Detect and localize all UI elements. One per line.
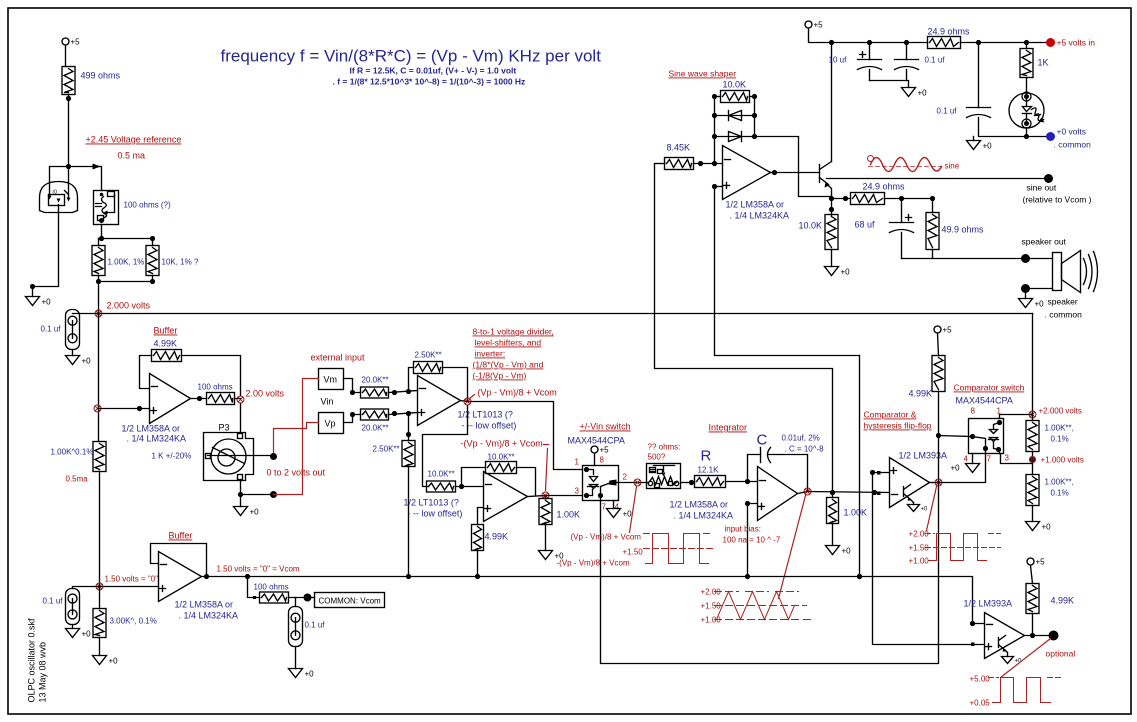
svg-text:1.00K^0.1%: 1.00K^0.1% xyxy=(51,448,94,457)
svg-text:. common: . common xyxy=(1045,310,1083,320)
svg-text:1/2 LM358A or: 1/2 LM358A or xyxy=(726,200,785,210)
svg-text:r0: r0 xyxy=(53,190,58,196)
svg-text:499 ohms: 499 ohms xyxy=(81,71,121,81)
svg-text:10 uf: 10 uf xyxy=(829,56,848,65)
svg-text:1/2 LM358A or: 1/2 LM358A or xyxy=(175,600,234,610)
svg-text:0.1 uf: 0.1 uf xyxy=(43,597,64,606)
svg-text:. 1/4 LM324KA: . 1/4 LM324KA xyxy=(674,511,734,521)
svg-text:C: C xyxy=(757,432,768,449)
svg-text:. common: . common xyxy=(1054,140,1092,150)
svg-text:10.0K: 10.0K xyxy=(799,221,823,231)
svg-text:+0: +0 xyxy=(918,89,928,98)
svg-text:100 ohms: 100 ohms xyxy=(198,383,233,392)
svg-text:24.9 ohms: 24.9 ohms xyxy=(863,182,906,192)
svg-text:COMMON: Vcom: COMMON: Vcom xyxy=(319,597,382,606)
svg-text:+0: +0 xyxy=(82,357,92,366)
svg-text:0 to 2 volts out: 0 to 2 volts out xyxy=(267,468,326,478)
svg-text:Comparator switch: Comparator switch xyxy=(954,383,1025,393)
svg-text:10K, 1% ?: 10K, 1% ? xyxy=(162,258,199,267)
svg-text:0.1 uf: 0.1 uf xyxy=(925,56,946,65)
svg-text:1.00K**,: 1.00K**, xyxy=(1045,478,1074,487)
svg-text:+2.000 volts: +2.000 volts xyxy=(1039,407,1082,416)
svg-text:0.1 uf: 0.1 uf xyxy=(305,621,326,630)
svg-text:4.99K: 4.99K xyxy=(1051,596,1075,606)
svg-text:100 ohms (?): 100 ohms (?) xyxy=(124,201,171,210)
svg-text:Comparator &: Comparator & xyxy=(864,410,917,420)
svg-text:3.00K^, 0.1%: 3.00K^, 0.1% xyxy=(110,617,157,626)
svg-text:input bias:: input bias: xyxy=(725,525,761,534)
svg-text:1.00K: 1.00K xyxy=(557,510,581,520)
svg-text:2.000 volts: 2.000 volts xyxy=(107,301,151,311)
svg-text:1/2 LM393A: 1/2 LM393A xyxy=(964,599,1013,609)
svg-text:500?: 500? xyxy=(648,453,666,462)
svg-text:1/2 LT1013 (?: 1/2 LT1013 (? xyxy=(404,498,459,508)
svg-text:. f = 1/(8* 12.5*10^3* 10^-8): . f = 1/(8* 12.5*10^3* 10^-8) = 1/(10^-3… xyxy=(333,77,526,87)
svg-text:- -- low offset): - -- low offset) xyxy=(408,509,463,519)
svg-text:13 May 08 wvb: 13 May 08 wvb xyxy=(38,642,48,703)
svg-text:1: 1 xyxy=(575,458,580,467)
svg-text:+0: +0 xyxy=(1042,523,1052,532)
svg-text:-(Vp - Vm)/8 + Vcom: -(Vp - Vm)/8 + Vcom xyxy=(557,559,630,568)
svg-text:1.00K**,: 1.00K**, xyxy=(1045,424,1074,433)
svg-text:Integrator: Integrator xyxy=(709,423,748,433)
svg-text:4.99K: 4.99K xyxy=(154,339,178,349)
svg-text:optional: optional xyxy=(1046,649,1076,659)
svg-text:MAX4544CPA: MAX4544CPA xyxy=(568,436,625,446)
svg-text:10.0K**: 10.0K** xyxy=(428,470,455,479)
svg-text:Buffer: Buffer xyxy=(169,531,193,541)
svg-text:+5: +5 xyxy=(814,21,824,30)
svg-text:+0: +0 xyxy=(623,510,633,519)
svg-text:+5: +5 xyxy=(1036,558,1046,567)
svg-text:4.99K: 4.99K xyxy=(485,532,509,542)
svg-text:100 ohms: 100 ohms xyxy=(254,583,289,592)
svg-text:8.45K: 8.45K xyxy=(667,143,691,153)
svg-text:1 K +/-20%: 1 K +/-20% xyxy=(152,452,192,461)
svg-text:3: 3 xyxy=(1005,454,1010,463)
svg-text:Sine wave shaper: Sine wave shaper xyxy=(669,69,737,79)
svg-text:0.1%: 0.1% xyxy=(1051,489,1069,498)
svg-text:2.50K**: 2.50K** xyxy=(415,351,442,360)
svg-text:2.50K**: 2.50K** xyxy=(373,445,400,454)
svg-text:+0 volts: +0 volts xyxy=(1057,127,1087,137)
svg-text:1.00K: 1.00K xyxy=(844,508,868,518)
svg-text:+1.50: +1.50 xyxy=(623,548,644,557)
svg-text:1/2 LM358A or: 1/2 LM358A or xyxy=(670,500,729,510)
svg-text:8: 8 xyxy=(600,456,605,465)
svg-text:1.50 volts = "0": 1.50 volts = "0" xyxy=(105,575,159,584)
svg-text:+0: +0 xyxy=(250,508,260,517)
svg-text:1/2 LM358A or: 1/2 LM358A or xyxy=(122,424,181,434)
svg-text:1/2 LT1013 (?: 1/2 LT1013 (? xyxy=(458,410,513,420)
svg-text:+1.000 volts: +1.000 volts xyxy=(1041,456,1084,465)
svg-text:20.0K**: 20.0K** xyxy=(362,376,389,385)
svg-text:1/2 LM393A: 1/2 LM393A xyxy=(899,451,948,461)
svg-text:7: 7 xyxy=(602,503,607,512)
svg-text:8: 8 xyxy=(971,407,976,416)
svg-text:(Vp - Vm)/8 + Vcom: (Vp - Vm)/8 + Vcom xyxy=(478,388,557,398)
svg-text:2: 2 xyxy=(623,473,628,482)
svg-text:-(Vp - Vm)/8 + Vcom: -(Vp - Vm)/8 + Vcom xyxy=(461,439,543,449)
svg-text:4: 4 xyxy=(964,455,969,464)
svg-text:0.1 uf: 0.1 uf xyxy=(41,325,62,334)
svg-text:Vm: Vm xyxy=(324,375,338,385)
svg-text:10.0K: 10.0K xyxy=(723,80,747,90)
svg-text:0.5 ma: 0.5 ma xyxy=(118,151,146,161)
svg-text:+0: +0 xyxy=(841,268,851,277)
svg-text:(1/8*(Vp - Vm) and: (1/8*(Vp - Vm) and xyxy=(473,360,544,370)
svg-text:. C = 10^-8: . C = 10^-8 xyxy=(785,445,825,454)
svg-text:+0: +0 xyxy=(983,142,993,151)
svg-text:+0: +0 xyxy=(1035,300,1045,309)
svg-text:+5: +5 xyxy=(71,38,81,47)
svg-text:+0: +0 xyxy=(82,630,92,639)
svg-text:speaker out: speaker out xyxy=(1022,237,1067,247)
svg-text:level-shifters, and: level-shifters, and xyxy=(475,338,542,348)
svg-text:+0: +0 xyxy=(921,507,929,513)
svg-text:+0: +0 xyxy=(109,657,119,666)
svg-text:+0: +0 xyxy=(42,298,52,307)
svg-text:Vp: Vp xyxy=(325,419,336,429)
svg-text:P3: P3 xyxy=(219,423,230,433)
svg-text:If R = 12.5K, C = 0.01uf, (V+: If R = 12.5K, C = 0.01uf, (V+ - V-) = 1.… xyxy=(350,66,517,76)
svg-text:12.1K: 12.1K xyxy=(698,466,720,475)
svg-text:68 uf: 68 uf xyxy=(855,220,876,230)
svg-text:+0.05: +0.05 xyxy=(970,699,991,708)
svg-text:. 1/4 LM324KA: . 1/4 LM324KA xyxy=(127,434,187,444)
svg-text:0.5ma: 0.5ma xyxy=(66,475,89,484)
svg-text:+5: +5 xyxy=(943,326,953,335)
svg-text:+/-Vin switch: +/-Vin switch xyxy=(580,422,631,432)
svg-text:100 na = 10 ^ -7: 100 na = 10 ^ -7 xyxy=(723,536,781,545)
svg-text:sine: sine xyxy=(945,162,960,171)
svg-text:3: 3 xyxy=(575,487,580,496)
svg-text:+1.00: +1.00 xyxy=(909,557,930,566)
svg-text:(Vp - Vm)/8 + Vcom: (Vp - Vm)/8 + Vcom xyxy=(571,533,642,542)
svg-text:MAX4544CPA: MAX4544CPA xyxy=(956,396,1013,406)
svg-text:10.0K**: 10.0K** xyxy=(488,453,515,462)
svg-text:external input: external input xyxy=(311,353,366,363)
svg-text:20.0K**: 20.0K** xyxy=(362,424,389,433)
svg-text:Vin: Vin xyxy=(321,397,334,407)
svg-text:frequency f = Vin/(8*R*C) = (V: frequency f = Vin/(8*R*C) = (Vp - Vm) KH… xyxy=(221,47,602,66)
svg-text:(-1/8(Vp - Vm): (-1/8(Vp - Vm) xyxy=(473,371,527,381)
svg-text:+2.45 Voltage reference: +2.45 Voltage reference xyxy=(86,135,182,145)
svg-text:. 1/4 LM324KA: . 1/4 LM324KA xyxy=(179,611,239,621)
svg-text:1K: 1K xyxy=(1038,58,1049,68)
svg-text:0.01uf, 2%: 0.01uf, 2% xyxy=(782,434,820,443)
svg-text:R: R xyxy=(701,448,712,465)
svg-text:+0: +0 xyxy=(842,547,852,556)
svg-text:7: 7 xyxy=(987,455,992,464)
svg-text:+0: +0 xyxy=(305,670,315,679)
svg-text:8-to-1 voltage divider,: 8-to-1 voltage divider, xyxy=(473,327,554,337)
svg-text:+5.00: +5.00 xyxy=(970,675,991,684)
svg-text:+5: +5 xyxy=(600,446,610,455)
svg-text:2.00 volts: 2.00 volts xyxy=(246,389,285,399)
svg-text:Buffer: Buffer xyxy=(154,326,178,336)
svg-text:+5 volts in: +5 volts in xyxy=(1057,38,1096,48)
svg-text:24.9 ohms: 24.9 ohms xyxy=(928,27,971,37)
svg-text:1.50 volts = "0" = Vcom: 1.50 volts = "0" = Vcom xyxy=(217,565,300,574)
svg-text:OLPC oscillator 0.skf: OLPC oscillator 0.skf xyxy=(27,618,37,703)
svg-text:?? ohms:: ?? ohms: xyxy=(648,443,681,452)
svg-text:inverter:: inverter: xyxy=(475,349,506,359)
svg-text:. 1/4 LM324KA: . 1/4 LM324KA xyxy=(730,211,790,221)
svg-text:(relative to Vcom ): (relative to Vcom ) xyxy=(1023,195,1092,205)
svg-text:1.00K, 1%: 1.00K, 1% xyxy=(108,258,145,267)
svg-text:0.1%: 0.1% xyxy=(1051,435,1069,444)
svg-text:sine out: sine out xyxy=(1027,183,1057,193)
svg-text:- -- low offset): - -- low offset) xyxy=(462,421,517,431)
svg-text:hysteresis flip-flop: hysteresis flip-flop xyxy=(864,421,932,431)
svg-text:0.1 uf: 0.1 uf xyxy=(937,107,958,116)
svg-text:+0: +0 xyxy=(951,464,961,473)
svg-text:49.9 ohms: 49.9 ohms xyxy=(942,225,985,235)
svg-text:4.99K: 4.99K xyxy=(909,389,933,399)
svg-text:speaker: speaker xyxy=(1048,297,1078,307)
